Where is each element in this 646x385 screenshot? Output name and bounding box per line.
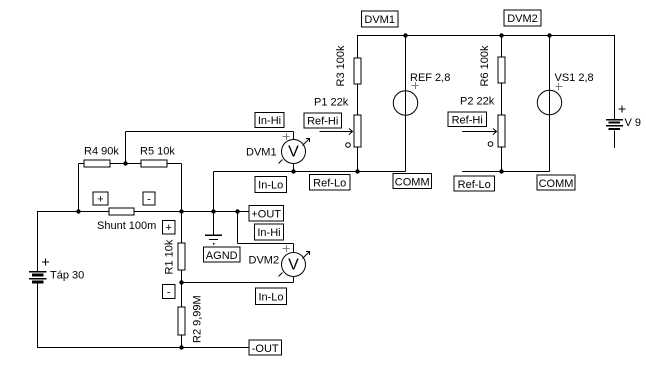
svg-text:R4 90k: R4 90k [84,146,119,158]
svg-text:R6 100k: R6 100k [479,45,491,86]
svg-text:+OUT: +OUT [251,209,281,221]
svg-text:V: V [288,257,299,274]
svg-text:DVM2: DVM2 [507,13,538,25]
svg-text:+: + [165,222,171,234]
svg-text:P1 22k: P1 22k [314,97,349,109]
svg-text:AGND: AGND [206,250,238,262]
svg-text:DVM1: DVM1 [246,147,277,159]
svg-text:+: + [97,194,103,206]
svg-text:In-Hi: In-Hi [257,227,280,239]
svg-text:-: - [147,194,151,206]
svg-text:DVM1: DVM1 [364,14,395,26]
svg-text:REF 2,8: REF 2,8 [410,72,450,84]
svg-text:DVM2: DVM2 [249,255,280,267]
svg-text:V: V [288,144,299,161]
svg-text:R2 9,99M: R2 9,99M [192,295,204,343]
svg-text:Táp 30: Táp 30 [50,270,84,282]
svg-text:-OUT: -OUT [252,343,279,355]
svg-text:Shunt 100m: Shunt 100m [97,220,156,232]
svg-text:V 9: V 9 [625,117,642,129]
svg-text:In-Lo: In-Lo [258,180,283,192]
svg-text:In-Lo: In-Lo [258,292,283,304]
svg-text:R1 10k: R1 10k [164,239,176,274]
svg-text:Ref-Hi: Ref-Hi [452,115,483,127]
svg-text:VS1 2,8: VS1 2,8 [555,72,594,84]
svg-text:COMM: COMM [539,178,574,190]
svg-text:Ref-Lo: Ref-Lo [313,178,346,190]
svg-text:Ref-Hi: Ref-Hi [307,116,338,128]
svg-text:R5 10k: R5 10k [140,146,175,158]
svg-text:P2 22k: P2 22k [460,96,495,108]
svg-text:In-Hi: In-Hi [258,115,281,127]
svg-text:COMM: COMM [395,177,430,189]
svg-text:-: - [167,287,171,299]
svg-text:Ref-Lo: Ref-Lo [458,179,491,191]
svg-text:R3 100k: R3 100k [335,45,347,86]
